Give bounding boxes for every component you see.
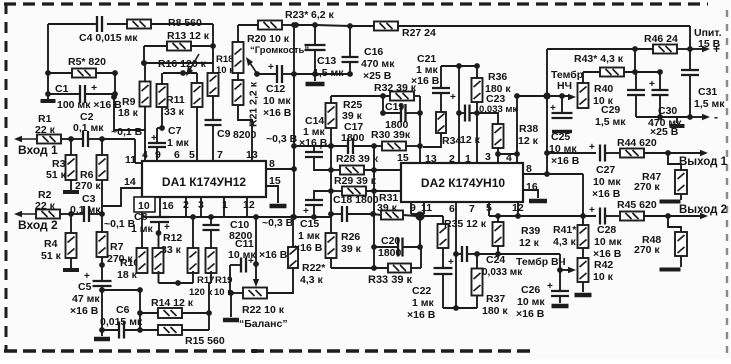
wire pin11 — [102, 126, 143, 163]
capacitor C6 — [100, 304, 158, 339]
out1 arrow — [668, 150, 728, 168]
svg-text:R40: R40 — [594, 83, 613, 95]
svg-text:16: 16 — [162, 200, 174, 212]
svg-text:18 к: 18 к — [118, 107, 139, 119]
svg-text:9: 9 — [410, 202, 416, 214]
wire pin12 down — [515, 202, 521, 219]
ground C13 — [306, 74, 325, 84]
wire R22 right — [267, 268, 293, 293]
capacitor C19 — [380, 101, 420, 131]
node C17 left — [328, 143, 334, 149]
capacitor C3 — [70, 193, 102, 222]
node R28 right — [371, 167, 377, 173]
svg-text:С19: С19 — [385, 101, 404, 113]
svg-text:13: 13 — [246, 149, 258, 161]
svg-text:R5* 820: R5* 820 — [68, 56, 106, 68]
resistor R2 — [35, 189, 71, 219]
ground R22 — [223, 293, 239, 320]
node R28 left — [328, 167, 334, 173]
svg-text:С18 1800: С18 1800 — [333, 194, 379, 206]
wire pin14 — [102, 188, 142, 230]
wire R46 row — [547, 46, 653, 72]
svg-text:R37: R37 — [486, 293, 505, 305]
node C16 bottom — [347, 71, 353, 77]
svg-text:R20 10 к: R20 10 к — [247, 33, 290, 45]
svg-text:1,5 мк: 1,5 мк — [694, 98, 725, 110]
resistor R25 — [326, 99, 363, 128]
capacitor C20 — [374, 235, 420, 259]
resistor R6 — [75, 139, 108, 192]
node R1-C2 — [68, 136, 74, 142]
pin 14 — [124, 176, 136, 188]
pin 7 DA2 — [469, 203, 475, 215]
pin 5 DA2 — [486, 202, 492, 214]
resistor R5 — [48, 56, 115, 94]
svg-text:×16 В: ×16 В — [294, 242, 323, 254]
node C13 bottom — [312, 71, 318, 77]
node C17 right — [371, 143, 377, 149]
ground R3 — [63, 180, 79, 192]
svg-text:С31: С31 — [698, 86, 717, 98]
node C10 top — [208, 214, 214, 220]
svg-text:14: 14 — [124, 176, 136, 188]
pin 4 — [142, 149, 148, 161]
pin 16 DA2 — [523, 181, 547, 201]
minus arrow — [690, 110, 718, 124]
rail mid ch2 — [373, 146, 375, 268]
pin 7 — [217, 149, 223, 161]
ground R4 — [63, 258, 79, 270]
label Vhod1 — [18, 143, 58, 157]
node R2-C3 — [68, 211, 74, 217]
capacitor C31 — [681, 49, 725, 117]
wire bottom join — [443, 307, 477, 309]
pin 16 — [160, 197, 174, 217]
pin 1 — [465, 153, 471, 165]
svg-text:С1: С1 — [55, 83, 69, 95]
svg-text:×16 В: ×16 В — [551, 155, 580, 167]
resistor R27 — [374, 22, 690, 40]
svg-text:R14 12 к: R14 12 к — [151, 297, 194, 309]
wire R5 top — [47, 24, 49, 73]
wire lower left bus — [99, 287, 140, 330]
node R9 top — [141, 60, 147, 66]
rail C19 left — [382, 96, 384, 113]
pin 6 — [174, 149, 180, 161]
node C18 right — [370, 211, 376, 217]
svg-text:R43* 4,3 к: R43* 4,3 к — [574, 53, 624, 65]
rail C19 right — [417, 96, 423, 163]
svg-text:С4 0,015 мк: С4 0,015 мк — [79, 32, 138, 44]
svg-text:“Баланс”: “Баланс” — [239, 318, 288, 330]
svg-text:С6: С6 — [116, 304, 130, 316]
resistor R42 pot — [578, 258, 614, 283]
wire C11 left — [230, 265, 241, 293]
pin 11 DA2 — [421, 202, 432, 214]
svg-text:R44 620: R44 620 — [617, 137, 657, 149]
svg-text:С27: С27 — [596, 164, 615, 176]
capacitor C1 — [55, 82, 122, 111]
node out2 — [665, 213, 671, 219]
svg-text:~0,3 В: ~0,3 В — [262, 217, 294, 229]
pin 3 — [485, 151, 491, 163]
wire R16 row — [144, 46, 213, 73]
svg-text:8200: 8200 — [233, 129, 257, 141]
IC DA2 K174UN10 — [401, 163, 523, 202]
svg-text:39 к: 39 к — [377, 202, 398, 214]
wire to C13 — [296, 22, 374, 29]
pin 15 — [397, 152, 409, 164]
svg-text:R22*: R22* — [302, 262, 326, 274]
node out1 — [665, 150, 671, 156]
resistor R15 — [158, 325, 225, 347]
svg-text:12 к: 12 к — [518, 135, 539, 147]
svg-text:+: + — [248, 256, 254, 267]
resistor R31 — [373, 192, 416, 220]
svg-text:1 мк: 1 мк — [298, 230, 321, 242]
rail feedback ch1 — [293, 25, 295, 169]
wire C5 bottom — [99, 286, 105, 333]
wire top volume row — [238, 24, 258, 26]
svg-text:С13: С13 — [317, 55, 336, 67]
resistor R41 — [553, 224, 589, 258]
rail feedback ch1 low — [291, 169, 297, 220]
capacitor C14 — [299, 115, 331, 170]
wire 03V top — [266, 133, 331, 149]
svg-text:11: 11 — [421, 202, 432, 214]
svg-text:×16 В: ×16 В — [411, 75, 440, 87]
resistor R1 — [35, 113, 71, 144]
svg-text:R27 24: R27 24 — [402, 27, 436, 39]
rail tone — [544, 49, 550, 174]
svg-text:39 к: 39 к — [341, 243, 362, 255]
node C20 right — [417, 244, 423, 250]
wiper R22 balance — [253, 264, 259, 287]
svg-text:С20: С20 — [381, 235, 400, 247]
node C12 right — [291, 71, 297, 77]
svg-text:180 к: 180 к — [482, 305, 508, 317]
pin 2 — [449, 153, 455, 165]
svg-text:11: 11 — [125, 154, 136, 166]
resistor R20 potentiometer — [233, 25, 310, 73]
svg-text:R29 39 к: R29 39 к — [334, 175, 377, 187]
pin 1 — [222, 197, 228, 217]
svg-text:R28 39 к: R28 39 к — [336, 153, 379, 165]
svg-text:+: + — [303, 206, 309, 217]
svg-text:4,3 к: 4,3 к — [300, 274, 324, 286]
node R22 left — [228, 290, 234, 296]
node R11-C7 — [159, 125, 165, 131]
resistor R28 — [331, 153, 401, 175]
rail mid ch1 — [330, 96, 332, 233]
pin 8 — [266, 158, 297, 172]
svg-text:51 к: 51 к — [46, 169, 67, 181]
node R13-R16 — [141, 60, 147, 66]
wire C8 bottom — [156, 222, 162, 248]
svg-text:Выход 2: Выход 2 — [679, 204, 727, 216]
svg-text:0,033 мк: 0,033 мк — [482, 267, 523, 278]
resistor R17 — [188, 217, 215, 298]
capacitor C24 — [456, 246, 523, 278]
svg-text:5: 5 — [189, 149, 195, 161]
svg-text:+: + — [589, 205, 595, 216]
capacitor C18 — [331, 194, 379, 222]
capacitor C27 — [589, 142, 621, 200]
capacitor C16 — [342, 26, 396, 82]
capacitor C9 — [205, 120, 257, 161]
wire R17 bottom — [192, 271, 194, 283]
capacitor C10 — [203, 217, 253, 242]
resistor pin5 col — [192, 73, 203, 161]
resistor R39 — [493, 216, 541, 254]
svg-text:1800: 1800 — [341, 132, 365, 144]
resistor R26 — [326, 231, 362, 268]
svg-text:С26: С26 — [521, 284, 540, 296]
node R39 bottom — [495, 251, 501, 257]
node pins9-11 — [411, 202, 425, 247]
svg-text:R26: R26 — [341, 231, 360, 243]
node C11 rail top — [253, 214, 259, 220]
label Upit — [694, 27, 722, 50]
svg-text:1800: 1800 — [378, 247, 402, 259]
svg-text:R12: R12 — [163, 232, 182, 244]
svg-text:0,1 мк: 0,1 мк — [73, 122, 104, 134]
wire supply corner — [689, 26, 691, 49]
pin 3 — [198, 197, 204, 217]
node C1 left — [45, 91, 51, 97]
capacitor C25 — [549, 93, 580, 167]
capacitor C15 — [294, 191, 331, 254]
pin 10 — [136, 197, 148, 209]
svg-text:2: 2 — [449, 153, 455, 165]
svg-text:R15 560: R15 560 — [185, 335, 225, 347]
wire R18-C9 — [212, 96, 214, 120]
svg-text:22 к: 22 к — [35, 124, 56, 136]
label Vhod2 — [18, 218, 58, 232]
svg-text:10 мк: 10 мк — [263, 95, 291, 107]
wire pin13 — [238, 105, 252, 161]
svg-text:×16 В: ×16 В — [259, 249, 288, 261]
resistor R34 — [423, 93, 481, 147]
node R14 left — [137, 287, 143, 293]
pin 2 — [183, 197, 189, 217]
svg-text:С16: С16 — [364, 46, 383, 58]
svg-text:15 В: 15 В — [698, 38, 721, 50]
svg-text:6: 6 — [449, 203, 455, 215]
capacitor C28 — [589, 205, 622, 260]
node C20 left — [371, 244, 377, 250]
pin 9 — [155, 149, 161, 161]
svg-text:47 мк: 47 мк — [72, 293, 100, 305]
svg-text:R42: R42 — [594, 259, 613, 271]
svg-text:R38: R38 — [519, 123, 538, 135]
svg-text:15: 15 — [397, 152, 409, 164]
capacitor C2 — [71, 111, 104, 147]
svg-text:Вход 1: Вход 1 — [18, 143, 58, 157]
IC DA1 K174UN12 — [142, 161, 266, 197]
wire out1 row — [547, 152, 596, 154]
svg-text:Вход 2: Вход 2 — [18, 218, 58, 232]
resistor R44 — [617, 137, 668, 158]
svg-text:С15: С15 — [300, 218, 319, 230]
svg-text:R39: R39 — [521, 225, 540, 237]
pin 9 DA2 — [410, 202, 416, 214]
pin 4 — [506, 152, 512, 164]
capacitor C22 — [407, 257, 454, 321]
wire volume row — [254, 71, 350, 77]
node R29 right — [371, 188, 377, 194]
wire minus row — [636, 114, 693, 120]
frame mark — [252, 349, 257, 353]
svg-text:+: + — [268, 62, 274, 73]
resistor R11 — [157, 73, 185, 128]
svg-text:+: + — [91, 82, 97, 94]
wiper R42 — [560, 267, 576, 273]
svg-text:С12: С12 — [266, 83, 285, 95]
wire treble row — [477, 253, 560, 255]
svg-text:6,2 к: 6,2 к — [311, 9, 335, 21]
svg-text:180 к: 180 к — [485, 83, 511, 95]
pin 12 DA2 — [512, 202, 524, 214]
svg-text:4: 4 — [142, 149, 148, 161]
resistor R43 — [574, 53, 660, 77]
svg-text:0,015 мк: 0,015 мк — [100, 316, 143, 328]
wire R6 bottom — [101, 180, 103, 214]
node R29 left — [328, 188, 334, 194]
svg-text:13: 13 — [425, 153, 437, 165]
wire lower bus — [142, 216, 331, 218]
svg-text:R30 39к: R30 39к — [371, 129, 411, 141]
capacitor C7 — [148, 125, 190, 161]
svg-text:DA2 К174УН10: DA2 К174УН10 — [421, 176, 505, 190]
node R10 top — [143, 216, 145, 218]
svg-text:470 мк: 470 мк — [361, 58, 395, 70]
svg-text:R45 620: R45 620 — [617, 199, 657, 211]
wire R12 bottom — [159, 271, 194, 286]
svg-text:1 мк: 1 мк — [167, 137, 190, 149]
resistor R40 pot — [578, 72, 614, 108]
resistor R16 (trimmer) — [158, 54, 207, 76]
wire input2 — [14, 211, 36, 217]
svg-text:33 к: 33 к — [164, 106, 185, 118]
wire pin4 — [144, 130, 146, 161]
svg-text:+: + — [547, 281, 553, 292]
node C11 right — [253, 261, 259, 267]
svg-text:×16 В: ×16 В — [516, 308, 545, 320]
node treble wiper — [557, 267, 563, 273]
ground R48 — [660, 268, 681, 272]
svg-text:270 к: 270 к — [75, 180, 101, 192]
svg-text:R23*: R23* — [285, 9, 309, 21]
node R33 left — [371, 265, 377, 271]
svg-text:+: + — [151, 133, 157, 144]
svg-text:10 к: 10 к — [216, 65, 234, 76]
svg-text:1: 1 — [465, 153, 471, 165]
wire pin8 link — [547, 174, 586, 225]
wire bass wiper row — [517, 92, 576, 100]
svg-text:12 к: 12 к — [519, 237, 540, 249]
svg-text:×16 В: ×16 В — [593, 248, 622, 260]
resistor R9 — [118, 63, 151, 130]
svg-text:22 к: 22 к — [35, 200, 56, 212]
pin 5 — [189, 149, 195, 161]
pin 8 DA2 — [523, 163, 550, 177]
svg-text:×16 В: ×16 В — [70, 305, 99, 317]
capacitor C4 — [79, 16, 138, 44]
resistor R38 — [477, 113, 539, 154]
svg-text:+: + — [589, 142, 595, 153]
capacitor C13 — [305, 25, 345, 79]
capacitor C5 — [70, 271, 112, 317]
svg-text:8: 8 — [269, 158, 275, 170]
resistor R13 — [144, 30, 213, 63]
resistor R32 — [374, 82, 420, 101]
node R16 wiper — [163, 70, 197, 76]
supply arrow — [690, 42, 720, 56]
svg-text:18 к: 18 к — [117, 269, 138, 281]
node C18 left — [328, 211, 334, 217]
svg-text:270 к: 270 к — [634, 244, 660, 256]
node R39 top — [495, 213, 501, 219]
node C1 right — [112, 91, 118, 97]
pin 13 — [425, 153, 437, 165]
svg-text:15: 15 — [269, 175, 281, 187]
resistor R23 — [258, 9, 335, 30]
node supply — [687, 46, 693, 52]
capacitor C29 — [595, 72, 645, 128]
resistor R8 — [127, 17, 202, 29]
svg-text:R8 560: R8 560 — [168, 17, 202, 29]
svg-text:R16 120 к: R16 120 к — [158, 58, 207, 70]
svg-text:270 к: 270 к — [634, 181, 660, 193]
capacitor C8 — [131, 211, 170, 235]
svg-text:16: 16 — [526, 181, 538, 193]
node R5 right — [112, 70, 118, 76]
svg-text:С25: С25 — [551, 131, 570, 143]
node R43 right — [632, 69, 638, 75]
svg-text:R22 10 к: R22 10 к — [242, 304, 285, 316]
capacitor C26 — [516, 281, 569, 320]
svg-text:10 мк: 10 мк — [593, 176, 621, 188]
svg-text:1 мк: 1 мк — [412, 297, 435, 309]
svg-text:R4: R4 — [44, 238, 58, 250]
wire input1 — [14, 136, 37, 142]
ground C30 — [670, 117, 685, 126]
resistor R48 — [634, 216, 687, 267]
svg-text:“Громкость”: “Громкость” — [250, 45, 309, 56]
svg-text:10 к: 10 к — [593, 271, 614, 283]
wire C1 row — [48, 73, 115, 94]
svg-text:R33 39 к: R33 39 к — [368, 274, 413, 286]
node R5 left — [45, 70, 51, 76]
svg-text:+: + — [448, 257, 454, 268]
resistor R12 — [153, 232, 183, 273]
svg-text:R41*: R41* — [553, 224, 577, 236]
ground C1 — [41, 94, 56, 101]
wire out2 row — [489, 202, 596, 216]
wire tone top row — [441, 63, 477, 69]
wiper R20 — [246, 57, 256, 72]
svg-text:С5: С5 — [78, 281, 92, 293]
svg-text:6: 6 — [174, 149, 180, 161]
pin 13 — [246, 149, 258, 161]
label bass — [551, 69, 583, 92]
svg-text:1,5 мк: 1,5 мк — [313, 67, 344, 79]
resistor R45 — [617, 199, 668, 221]
svg-text:1: 1 — [222, 199, 228, 211]
svg-text:~0,1 В: ~0,1 В — [111, 126, 143, 138]
wire C11 rail — [255, 217, 257, 264]
